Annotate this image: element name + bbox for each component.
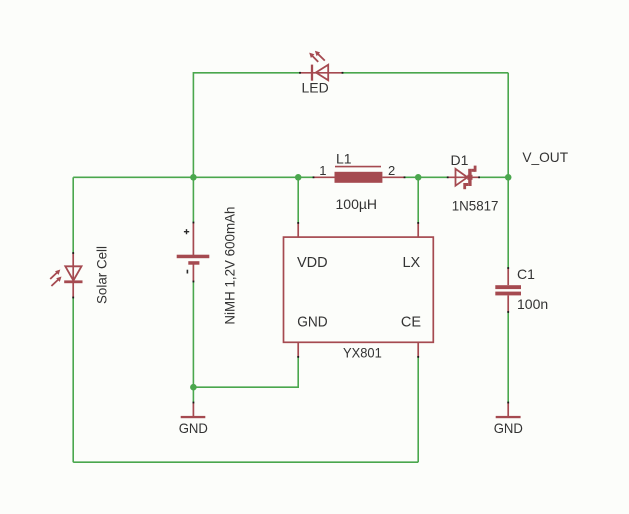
junction dot: main net at VDD (295, 174, 302, 181)
svg-text:GND: GND (494, 420, 523, 436)
svg-text:NiMH 1,2V 600mAh: NiMH 1,2V 600mAh (222, 207, 238, 325)
inductor L1: filled bar symbol with pins (313, 167, 406, 183)
IC pin LX stub (417, 222, 419, 237)
wire main horizontal net: solar cell corner to L1 pin 1 (73, 176, 313, 178)
IC U1 YX801: box (284, 237, 434, 342)
IC pin VDD stub (297, 222, 299, 237)
junction dot: main net at LX / L1 pin 2 (415, 174, 422, 181)
wire top net: battery+ corner up and across to LED anode (193, 73, 300, 178)
IC pin CE stub (417, 342, 419, 358)
wire battery bottom: battery - pin down to GND junction (192, 282, 194, 403)
wire battery top: junction down to battery + pin (192, 177, 194, 222)
wire LX vertical: main net junction down to LX pin (417, 177, 419, 223)
svg-text:GND: GND (297, 314, 327, 330)
wire GND net: junction right and up to IC GND pin (193, 357, 298, 387)
svg-text:Solar Cell: Solar Cell (94, 246, 110, 304)
wire L1 pin 2 to D1 anode (405, 176, 448, 178)
capacitor C1: symbol with pins (495, 267, 521, 313)
svg-text:VDD: VDD (297, 255, 328, 271)
svg-text:D1: D1 (451, 152, 469, 168)
svg-text:L1: L1 (336, 151, 352, 167)
svg-text:C1: C1 (517, 266, 535, 282)
svg-text:CE: CE (401, 314, 421, 330)
wire VDD vertical: main net junction down to VDD pin (297, 177, 299, 223)
wire C1 bottom pin down to GND symbol (507, 312, 509, 403)
battery G1: NiMH cell symbol with pins (177, 222, 210, 283)
ground symbol right (496, 402, 521, 419)
svg-text:1: 1 (319, 163, 326, 178)
junction dot: GND net at battery - (190, 384, 197, 391)
svg-text:LED: LED (302, 80, 329, 96)
LED D: symbol with pins (299, 51, 343, 81)
svg-text:V_OUT: V_OUT (522, 149, 568, 165)
svg-text:100n: 100n (517, 296, 548, 312)
wire D1 cathode to V_OUT junction (479, 176, 508, 178)
svg-text:100µH: 100µH (336, 196, 378, 212)
ground symbol left (181, 402, 206, 419)
wire left vertical: solar cell cathode down to bottom corner (72, 298, 74, 463)
wire left vertical: corner down to solar cell anode pin (72, 177, 74, 253)
junction dot: main net at battery top (190, 174, 197, 181)
junction dot: V_OUT net at D1 cathode (505, 174, 512, 181)
solar cell D: photodiode symbol with pins (50, 252, 82, 298)
svg-text:2: 2 (388, 163, 395, 178)
svg-text:LX: LX (402, 255, 420, 271)
svg-text:GND: GND (179, 420, 208, 436)
diode D1: schottky symbol with pins (447, 166, 480, 190)
svg-text:YX801: YX801 (343, 345, 382, 361)
IC pin GND stub (297, 342, 299, 358)
svg-text:1N5817: 1N5817 (452, 197, 499, 213)
wire top net: LED cathode to V_OUT corner (343, 72, 509, 74)
wire V_OUT vertical: top corner down to C1 top pin (507, 73, 509, 268)
wire CE vertical: bottom corner up to CE pin (417, 357, 419, 462)
wire bottom net: left corner to CE corner (73, 461, 418, 463)
